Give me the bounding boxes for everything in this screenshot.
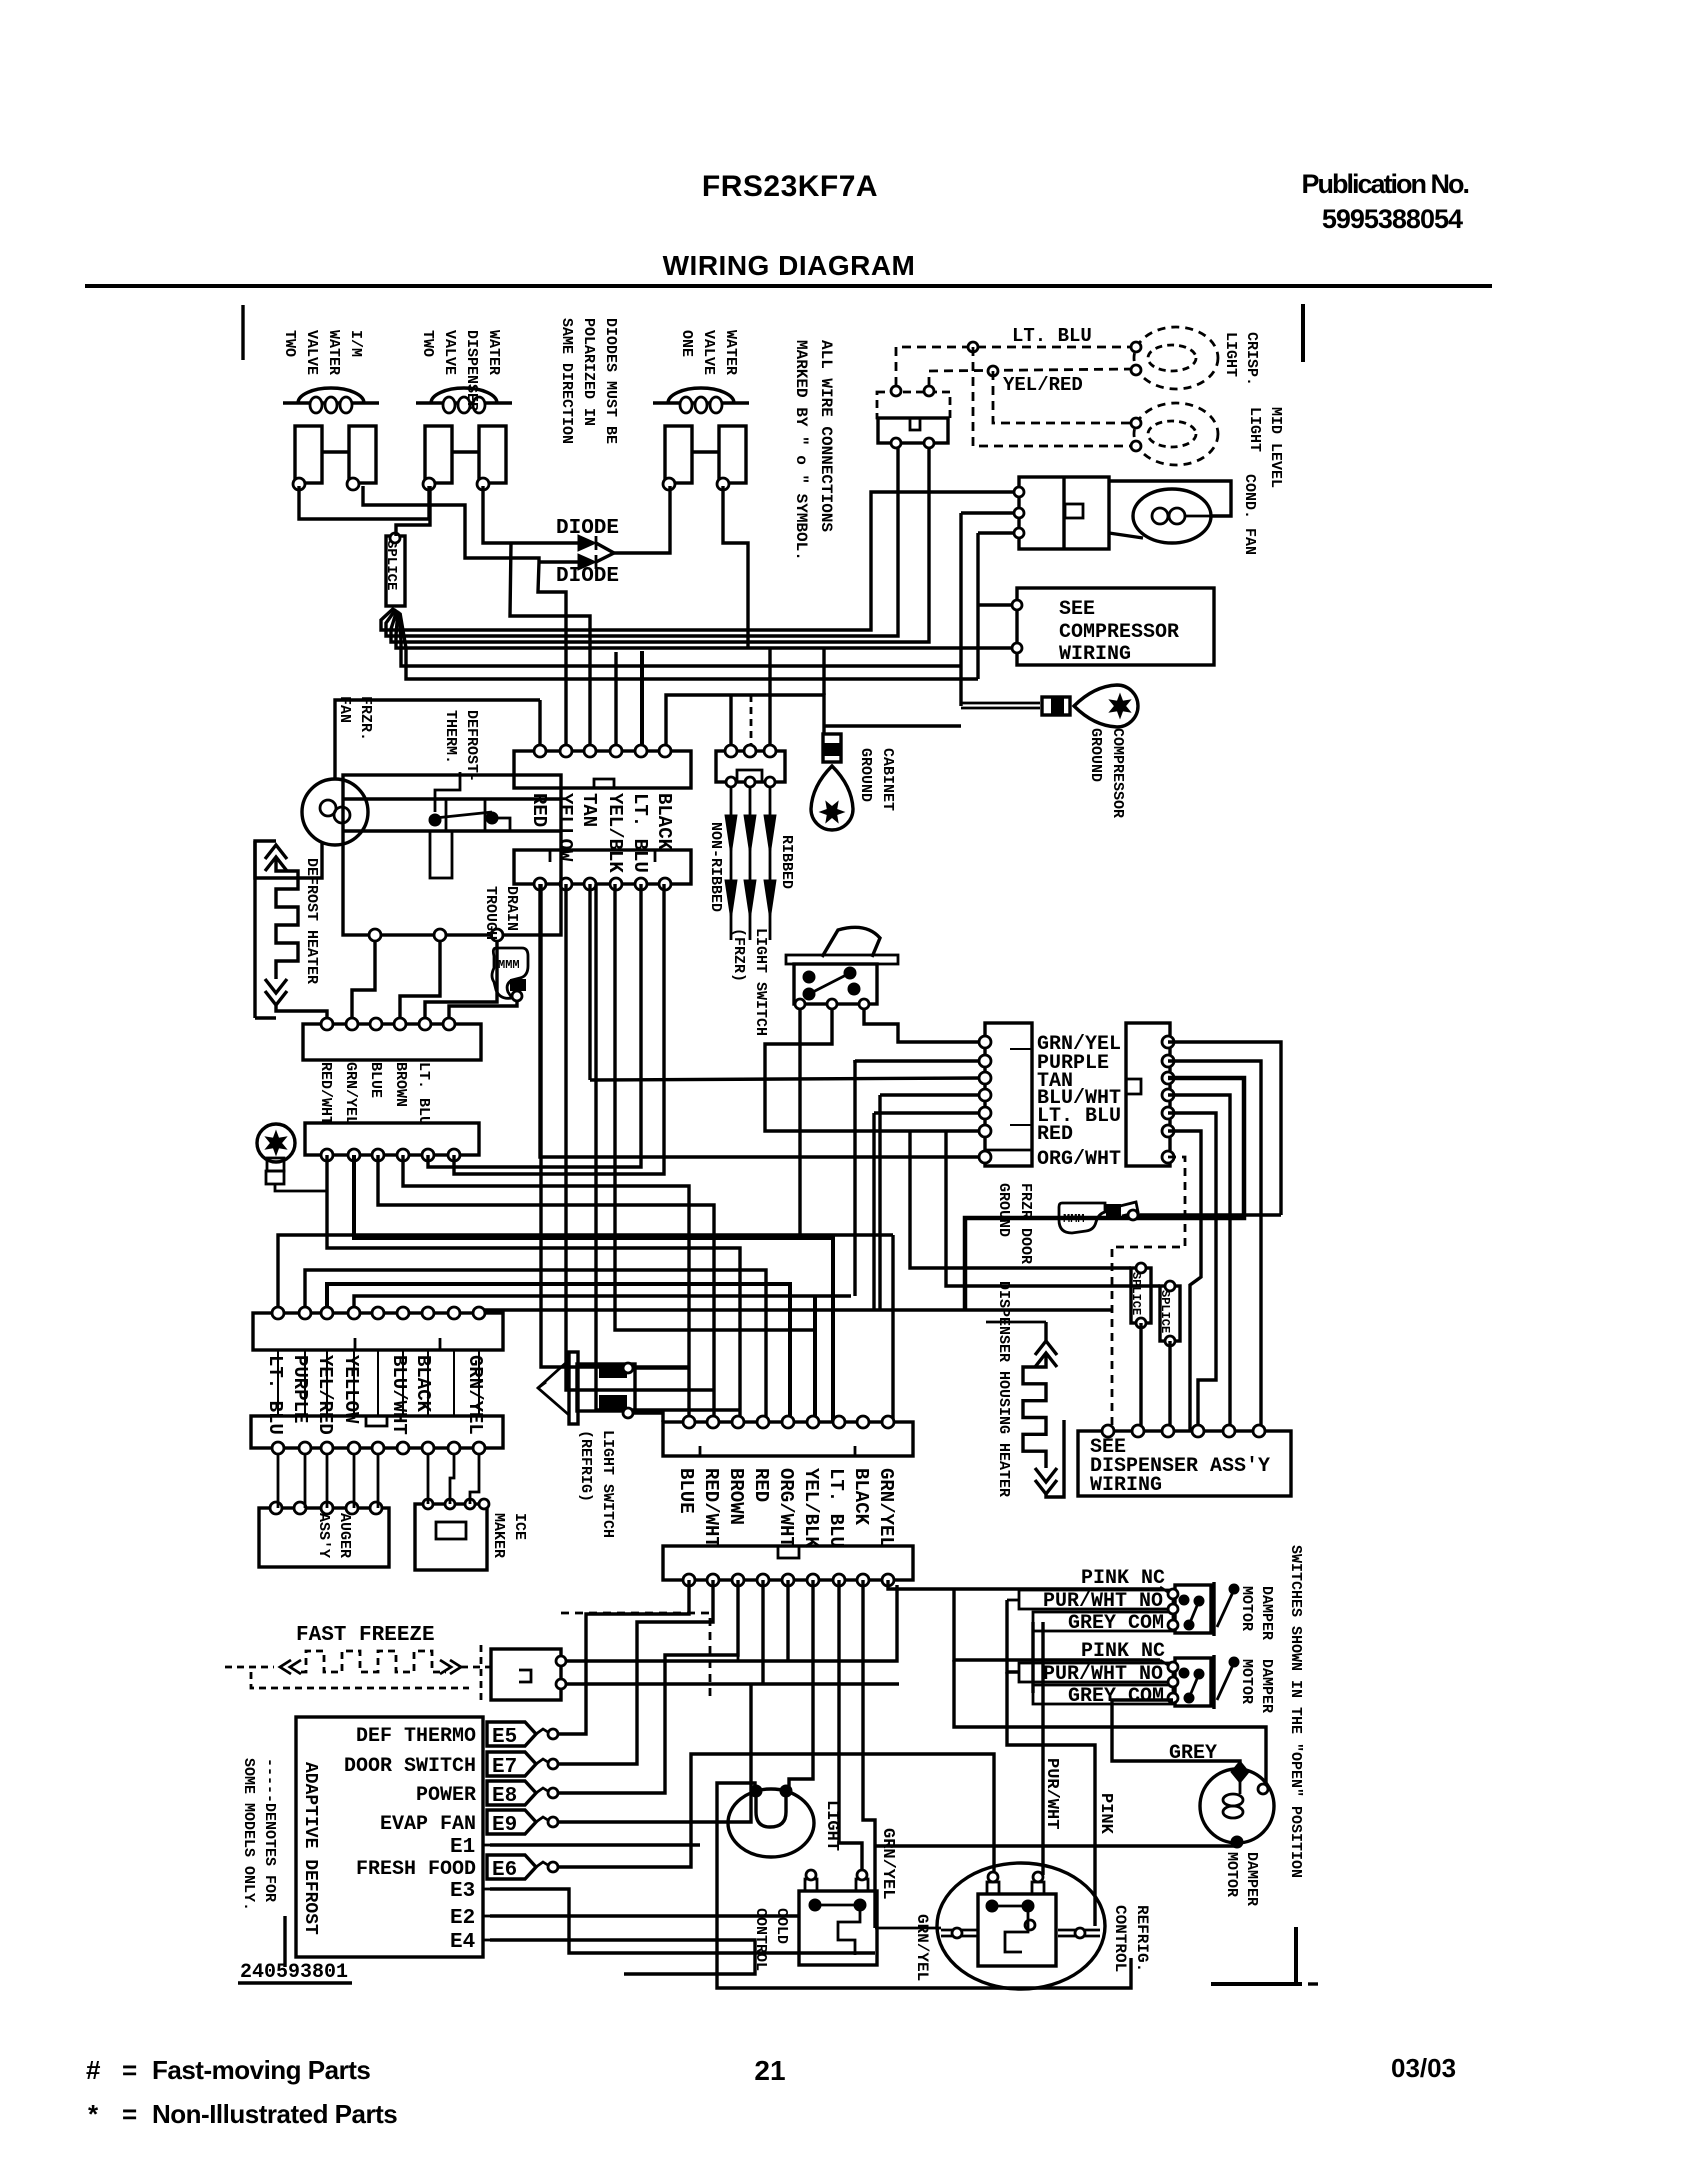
svg-text:WATER: WATER	[325, 330, 342, 375]
svg-text:VALVE: VALVE	[303, 330, 320, 375]
svg-text:CRISP.: CRISP.	[1243, 332, 1260, 386]
border corner bottom right	[1294, 1927, 1298, 1984]
wire damper row feeds	[1007, 1599, 1019, 1602]
diode D2	[539, 560, 578, 563]
connector JA	[305, 1123, 479, 1155]
wire grey com1 feed	[1031, 1622, 1034, 1693]
connector J0	[303, 1024, 481, 1060]
svg-text:E8: E8	[492, 1785, 517, 1808]
svg-text:AUGER: AUGER	[336, 1513, 353, 1558]
svg-text:COLD: COLD	[773, 1908, 790, 1944]
svg-text:DAMPER: DAMPER	[1258, 1586, 1275, 1640]
wire JB-1 to JD-9	[278, 1235, 893, 1313]
svg-text:FRZR DOOR: FRZR DOOR	[1017, 1183, 1034, 1264]
svg-text:ONE: ONE	[678, 330, 695, 357]
compressor ground lug	[1074, 685, 1138, 727]
svg-text:SOME MODELS ONLY.: SOME MODELS ONLY.	[240, 1758, 257, 1911]
wire bus B3 splice to thermostat right	[391, 443, 929, 642]
svg-text:BLACK: BLACK	[850, 1468, 872, 1526]
svg-text:LT. BLU: LT. BLU	[629, 793, 651, 873]
ground screw	[257, 1124, 295, 1162]
wire YEL/RED dashed	[929, 369, 1133, 386]
border tick left top	[241, 305, 244, 360]
svg-text:BLACK: BLACK	[653, 793, 675, 851]
wire valve2-right to diode 1	[483, 486, 511, 543]
wires JC to ice maker	[427, 1454, 430, 1504]
solenoid valve WATER VALVE ONE	[653, 401, 749, 404]
svg-text:MAKER: MAKER	[490, 1513, 507, 1558]
svg-text:FAST FREEZE: FAST FREEZE	[296, 1624, 435, 1647]
border tick right top	[1301, 304, 1305, 362]
damper switch body	[1175, 1658, 1211, 1706]
connector JB	[253, 1313, 503, 1350]
wire JE-6 to light bulb	[789, 1580, 813, 1789]
board terminal E8	[487, 1781, 536, 1805]
svg-text:GROUND: GROUND	[1087, 728, 1104, 782]
wire heater top lead	[986, 1321, 1046, 1324]
wire E3	[490, 1889, 875, 1953]
svg-text:LT. BLU: LT. BLU	[825, 1468, 847, 1548]
wire JE-4 to fast freeze lower	[761, 1580, 764, 1684]
svg-text:Non-Illustrated Parts: Non-Illustrated Parts	[152, 2099, 397, 2129]
svg-text:VALVE: VALVE	[700, 330, 717, 375]
wire bus B4 splice to compressor box upper	[396, 611, 1017, 648]
dispenser housing heater element	[1044, 1322, 1047, 1341]
connector JC	[251, 1416, 503, 1448]
svg-text:240593801: 240593801	[240, 1961, 348, 1984]
svg-text:E6: E6	[492, 1859, 517, 1882]
mid level light bulb	[1134, 403, 1218, 465]
freezer light switch rocker	[822, 927, 880, 957]
wire cabinet ground to compressor ground	[824, 724, 961, 727]
svg-text:E7: E7	[492, 1756, 517, 1779]
svg-text:WIRING: WIRING	[1090, 1474, 1162, 1497]
svg-text:YELLOW: YELLOW	[340, 1355, 362, 1424]
connector JD	[663, 1422, 913, 1456]
wire J1b-3 to JD-3 column	[596, 884, 740, 1410]
solenoid valve WATER DISPENSER VALVE TWO	[416, 401, 512, 404]
svg-text:NON-RIBBED: NON-RIBBED	[707, 822, 724, 912]
wire to left box T7	[540, 884, 985, 1157]
wire ground screw to JA	[275, 1184, 327, 1191]
wire E2 to cold control	[490, 1914, 799, 1917]
wire JE-5 stub	[786, 1580, 789, 1661]
svg-text:DAMPER: DAMPER	[1243, 1852, 1260, 1906]
svg-text:*: *	[88, 2099, 99, 2129]
svg-text:FRESH FOOD: FRESH FOOD	[356, 1858, 476, 1881]
svg-text:DRAIN: DRAIN	[503, 886, 520, 931]
wire JA-3 to JD-2	[378, 1155, 714, 1422]
wire diode output to valve3	[614, 486, 670, 553]
svg-text:03/03: 03/03	[1391, 2053, 1456, 2083]
svg-text:GREY COM: GREY COM	[1068, 1685, 1164, 1708]
wire E8 to JE-3	[558, 1580, 738, 1793]
svg-text:REFRIG.: REFRIG.	[1133, 1905, 1151, 1972]
wire switch frzr right	[864, 1009, 985, 1042]
svg-text:DEF THERMO: DEF THERMO	[356, 1725, 476, 1748]
svg-text:GREY COM: GREY COM	[1068, 1612, 1164, 1635]
wire damper motor bottom	[875, 1842, 1237, 1846]
wire pink nc lead	[1160, 1660, 1171, 1667]
wire LT. BLU dashed	[896, 347, 1133, 386]
cabinet ground lug (pointing down)	[811, 734, 853, 830]
svg-text:GREY: GREY	[1169, 1742, 1217, 1765]
svg-text:=: =	[122, 2099, 137, 2129]
wire cond fan bottom	[1109, 533, 1143, 538]
fast freeze switch box	[491, 1649, 561, 1700]
wire fast freeze upper	[566, 1585, 897, 1661]
svg-text:E1: E1	[450, 1836, 475, 1859]
svg-text:E5: E5	[492, 1726, 517, 1749]
svg-text:THERM.: THERM.	[442, 710, 459, 764]
wire frzr door ground to right box T1	[1138, 1213, 1281, 1216]
svg-text:GROUND: GROUND	[857, 748, 874, 802]
refrigerator light switch	[569, 1352, 578, 1424]
wire E7 to JE-2	[558, 1580, 713, 1764]
defrost thermostat switch	[435, 772, 460, 812]
svg-text:5995388054: 5995388054	[1322, 204, 1463, 234]
adaptive defrost control board	[296, 1717, 483, 1957]
solenoid valve I/M WATER VALVE TWO	[283, 401, 379, 404]
wire JE-8 grn/yel to refrig control	[863, 1580, 875, 1928]
damper motor actuator arm	[1217, 1592, 1233, 1627]
svg-text:EVAP FAN: EVAP FAN	[380, 1813, 476, 1836]
connector J1 lower half	[514, 850, 691, 884]
svg-text:YEL/BLK: YEL/BLK	[604, 793, 626, 873]
wire diode2 tap to connector Y terminal	[538, 562, 566, 748]
svg-text:E2: E2	[450, 1907, 475, 1930]
wire bus B1 splice to cond fan	[381, 492, 1019, 630]
wire E5 to JE-1	[558, 1580, 689, 1734]
wire bus tap to connector LT BLU terminal	[640, 651, 644, 748]
wire pur/wht long	[1041, 1622, 1044, 1875]
svg-text:RED/WHT: RED/WHT	[700, 1468, 722, 1548]
svg-text:MARKED BY " o " SYMBOL.: MARKED BY " o " SYMBOL.	[792, 340, 810, 561]
svg-text:LT. BLU: LT. BLU	[415, 1062, 432, 1125]
svg-text:POLARIZED IN: POLARIZED IN	[580, 318, 597, 426]
svg-text:GRN/YEL: GRN/YEL	[875, 1468, 897, 1548]
board terminal E6	[487, 1855, 536, 1879]
connector J1 freezer harness	[514, 751, 691, 788]
damper switch ladder GREY COM	[1033, 1612, 1173, 1631]
svg-text:SPLICE: SPLICE	[1129, 1272, 1143, 1315]
damper switch ladder GREY COM	[1033, 1685, 1173, 1704]
svg-text:YEL/BLK: YEL/BLK	[800, 1468, 822, 1548]
wire J1b-4 run	[615, 884, 815, 1330]
wire valve3-right down	[723, 486, 748, 648]
svg-text:ICE: ICE	[511, 1513, 528, 1540]
auger assembly box	[259, 1508, 389, 1567]
svg-text:E3: E3	[450, 1880, 475, 1903]
svg-text:ALL WIRE CONNECTIONS: ALL WIRE CONNECTIONS	[817, 340, 835, 532]
wire pink down to refrig lead	[1007, 1672, 1095, 1926]
reference box SEE COMPRESSOR WIRING	[1017, 588, 1214, 665]
svg-text:DOOR SWITCH: DOOR SWITCH	[344, 1755, 476, 1778]
svg-text:RIBBED: RIBBED	[778, 835, 795, 889]
svg-text:E4: E4	[450, 1931, 475, 1954]
svg-text:WIRING DIAGRAM: WIRING DIAGRAM	[663, 250, 916, 281]
wire E6 fresh food	[558, 1754, 994, 1877]
svg-text:SWITCHES SHOWN IN THE "OPEN" P: SWITCHES SHOWN IN THE "OPEN" POSITION	[1287, 1545, 1304, 1878]
wires defrost timer to connector J0	[352, 941, 375, 1022]
damper motor actuator arm	[1217, 1665, 1233, 1700]
svg-text:VALVE: VALVE	[441, 330, 458, 375]
wire compressor ground lead	[961, 702, 1040, 705]
reference box SEE DISPENSER ASSY WIRING	[1078, 1431, 1291, 1496]
svg-text:LIGHT SWITCH: LIGHT SWITCH	[599, 1430, 616, 1538]
svg-text:MMM: MMM	[498, 958, 520, 972]
svg-text:PUR/WHT NO: PUR/WHT NO	[1043, 1663, 1163, 1686]
wire dashed option link	[561, 1613, 710, 1700]
wire long from J1b-3 to left box T3	[590, 1078, 985, 1080]
thermostat crisper control	[877, 392, 950, 418]
wire to left box T4	[880, 1093, 985, 1096]
freezer door ground clip	[1059, 1203, 1105, 1233]
wire bus B5 splice to cond fan mid	[399, 612, 961, 666]
svg-text:TAN: TAN	[578, 793, 600, 827]
svg-text:#: #	[86, 2055, 101, 2085]
wire E4	[490, 1940, 755, 1974]
wire valve2-left to splice S1	[396, 486, 430, 536]
svg-text:BLUE: BLUE	[367, 1062, 384, 1098]
svg-text:BLU/WHT: BLU/WHT	[388, 1355, 410, 1435]
power cord conductor arrows	[730, 787, 733, 940]
wire dashed branch to mid level light upper	[993, 371, 1133, 423]
board terminal E5	[487, 1722, 536, 1746]
wire cond fan top loop	[1109, 481, 1231, 516]
wire splice S2 to dispenser box	[1139, 1323, 1142, 1431]
svg-text:ORG/WHT: ORG/WHT	[775, 1468, 797, 1548]
svg-text:TROUGH: TROUGH	[482, 886, 499, 940]
svg-text:RED/WHT: RED/WHT	[317, 1062, 334, 1125]
wire JB-4 to JD-6	[354, 1296, 851, 1313]
splice S1	[386, 536, 405, 606]
wires JB verticals down to JC	[277, 1350, 279, 1416]
wire long run to splice row	[486, 1310, 1112, 1313]
wire valve1-left to valve2-left	[299, 486, 429, 519]
connector J2 power cord	[716, 751, 785, 782]
svg-text:Publication No.: Publication No.	[1301, 169, 1468, 199]
wire damper pink nc 2 feed	[954, 1589, 1160, 1660]
connector box left (door harness)	[985, 1023, 1032, 1166]
svg-text:SEE: SEE	[1059, 598, 1095, 621]
ice maker box	[415, 1504, 487, 1570]
condenser fan connector	[1019, 477, 1109, 549]
wire drain trough to connector J0	[449, 1001, 517, 1022]
wire JA-6 to J1-6	[454, 884, 664, 1174]
svg-text:-----DENOTES FOR: -----DENOTES FOR	[261, 1758, 278, 1902]
wire JA-1 to JD-3	[327, 1155, 740, 1422]
svg-text:ASS'Y: ASS'Y	[315, 1513, 332, 1558]
wire to left box T5	[874, 1111, 985, 1114]
wire splice S3 to dispenser box	[1168, 1341, 1171, 1431]
wire J1b-1 to JD-1 column	[541, 884, 689, 1367]
svg-text:POWER: POWER	[416, 1784, 476, 1807]
svg-text:CONTROL: CONTROL	[752, 1908, 769, 1971]
board terminal E9	[487, 1810, 536, 1834]
wire bus tap RED terminal	[538, 700, 541, 748]
wire light bulb left to refrig control bottom	[717, 1783, 1131, 1988]
wire bus B6 splice to compressor box lower	[400, 613, 978, 679]
svg-text:PINK: PINK	[1096, 1793, 1115, 1835]
wire JE-7 to cold control right	[839, 1580, 862, 1871]
svg-text:LIGHT: LIGHT	[1246, 407, 1263, 452]
condenser fan motor	[1133, 489, 1211, 543]
svg-text:MOTOR: MOTOR	[1223, 1852, 1240, 1897]
board part number mark	[283, 1916, 286, 1967]
svg-text:RED: RED	[1037, 1123, 1073, 1146]
splice S2	[1131, 1268, 1151, 1323]
svg-text:DEFROST HEATER: DEFROST HEATER	[303, 858, 320, 984]
svg-text:COMPRESSOR: COMPRESSOR	[1109, 728, 1126, 818]
freezer fan motor	[302, 779, 368, 845]
diode D1	[511, 541, 578, 544]
svg-text:BROWN: BROWN	[725, 1468, 747, 1525]
svg-text:E9: E9	[492, 1814, 517, 1837]
svg-text:DISPENSER HOUSING HEATER: DISPENSER HOUSING HEATER	[995, 1281, 1012, 1497]
svg-text:PURPLE: PURPLE	[289, 1355, 311, 1423]
svg-text:FRS23KF7A: FRS23KF7A	[702, 170, 878, 203]
svg-text:FRZR.: FRZR.	[357, 696, 374, 741]
svg-text:=: =	[122, 2055, 137, 2085]
svg-text:GRN/YEL: GRN/YEL	[913, 1914, 931, 1981]
drain trough ground clip	[492, 948, 528, 998]
svg-text:LIGHT: LIGHT	[1222, 332, 1239, 377]
svg-text:YEL/RED: YEL/RED	[314, 1355, 336, 1435]
damper switch ladder PUR/WHT NO	[1019, 1590, 1173, 1609]
svg-text:DEFROST-: DEFROST-	[463, 710, 480, 782]
svg-text:GRN/YEL: GRN/YEL	[464, 1355, 486, 1435]
wire cabinet ground feed	[666, 695, 824, 757]
svg-text:WATER: WATER	[485, 330, 502, 375]
svg-text:GRN/YEL: GRN/YEL	[878, 1828, 897, 1899]
wire switch frzr left down	[798, 1009, 801, 1238]
svg-text:LIGHT SWITCH: LIGHT SWITCH	[752, 928, 769, 1036]
wire grn/yel into refrig control	[875, 1927, 941, 1930]
svg-text:TWO: TWO	[419, 330, 436, 357]
svg-text:BLACK: BLACK	[412, 1355, 434, 1413]
wire freezer fan to RED terminal	[335, 700, 540, 779]
wire dashed branch to mid level light lower	[973, 347, 1133, 446]
damper switch ladder PUR/WHT NO	[1019, 1663, 1173, 1682]
wire freezer fan to defrost heater	[255, 841, 322, 878]
refrig control side leads	[941, 1929, 977, 1932]
splice S3	[1160, 1286, 1180, 1341]
wire switch frzr mid	[765, 1009, 985, 1131]
wires light switch refrig	[633, 1366, 689, 1369]
wire pink nc lead	[1160, 1587, 1171, 1594]
wire right risers to splices	[910, 1131, 1131, 1268]
wire valve1-right to diode 2	[363, 486, 539, 562]
svg-text:SPLICE: SPLICE	[1158, 1290, 1172, 1333]
svg-text:LIGHT: LIGHT	[822, 1800, 841, 1851]
svg-text:DIODES MUST BE: DIODES MUST BE	[602, 318, 619, 444]
refrigerator light bulb	[728, 1789, 814, 1857]
board terminal E7	[487, 1752, 536, 1776]
svg-text:LT. BLU: LT. BLU	[1012, 325, 1092, 347]
svg-text:YEL/RED: YEL/RED	[1003, 374, 1083, 396]
wire bus tap YEL/BLK terminal	[614, 652, 617, 748]
wire fast freeze lower	[566, 1682, 899, 1685]
crisper light bulb	[1134, 327, 1218, 389]
svg-text:WIRING: WIRING	[1059, 643, 1131, 666]
wire dashed ORG/WHT	[1112, 1157, 1185, 1431]
svg-text:I/M: I/M	[347, 330, 364, 357]
svg-text:BROWN: BROWN	[392, 1062, 409, 1107]
svg-text:LT. BLU: LT. BLU	[264, 1355, 286, 1435]
wire E9 to fast freeze lower	[558, 1684, 751, 1822]
wire grey to damper motor	[1112, 1700, 1240, 1770]
wire JA-2 to JD-7	[354, 1155, 833, 1422]
connector JE	[663, 1546, 913, 1580]
svg-text:SAME DIRECTION: SAME DIRECTION	[558, 318, 575, 444]
wires from right box to dispenser circuits	[1168, 1042, 1281, 1215]
svg-text:21: 21	[754, 2055, 785, 2086]
fast freeze heater dashed	[225, 1666, 274, 1669]
damper motor	[1200, 1769, 1274, 1843]
svg-text:MOTOR: MOTOR	[1238, 1586, 1255, 1631]
connector box right (door harness)	[1126, 1023, 1170, 1166]
svg-text:WATER: WATER	[722, 330, 739, 375]
svg-text:MID LEVEL: MID LEVEL	[1267, 407, 1284, 488]
svg-text:ORG/WHT: ORG/WHT	[1037, 1148, 1121, 1171]
svg-text:MMM: MMM	[1063, 1212, 1085, 1226]
wire damper motor com run	[954, 1660, 1266, 1786]
svg-text:BLUE: BLUE	[675, 1468, 697, 1514]
svg-text:(FRZR): (FRZR)	[730, 928, 747, 982]
svg-text:SPLICE: SPLICE	[383, 540, 399, 590]
wire JA-5 to J1-5	[428, 884, 641, 1167]
svg-text:MOTOR: MOTOR	[1238, 1659, 1255, 1704]
svg-text:DIODE: DIODE	[556, 517, 619, 540]
wire J1b-2 to JD-2 column	[566, 884, 714, 1390]
wire JA-4 to JD-1	[403, 1155, 689, 1422]
wire diode1 tap to connector T terminal	[510, 543, 590, 748]
svg-text:GRN/YEL: GRN/YEL	[342, 1062, 359, 1125]
wire bus B2 splice to thermostat left	[386, 443, 898, 636]
wire E1	[490, 1843, 700, 1846]
svg-text:PUR/WHT NO: PUR/WHT NO	[1043, 1590, 1163, 1613]
svg-text:CONTROL: CONTROL	[1111, 1905, 1129, 1972]
svg-text:TWO: TWO	[281, 330, 298, 357]
wire bus tap to connector 2 ribbed terminal	[768, 648, 771, 748]
damper switch body	[1175, 1585, 1211, 1633]
svg-text:(REFRIG): (REFRIG)	[577, 1430, 594, 1502]
svg-text:COMPRESSOR: COMPRESSOR	[1059, 621, 1179, 644]
refrigerator control thermostat	[937, 1863, 1105, 1989]
wire JE-9 to damper PINK NC 1	[888, 1580, 1160, 1589]
svg-text:ADAPTIVE DEFROST: ADAPTIVE DEFROST	[300, 1762, 320, 1935]
svg-text:PINK NC: PINK NC	[1081, 1567, 1165, 1590]
svg-text:CABINET: CABINET	[879, 748, 896, 811]
wire to compressor box upper terminal	[976, 603, 979, 606]
svg-text:PUR/WHT: PUR/WHT	[1042, 1758, 1061, 1829]
defrost heater element	[253, 841, 256, 1018]
svg-text:COND. FAN: COND. FAN	[1241, 474, 1258, 555]
svg-text:GROUND: GROUND	[995, 1183, 1012, 1237]
svg-text:DAMPER: DAMPER	[1258, 1659, 1275, 1713]
wire JB-3 to JD-5	[327, 1284, 790, 1422]
svg-text:RED: RED	[750, 1468, 772, 1502]
wire to left box T2	[855, 1060, 985, 1061]
title rule line	[85, 284, 1492, 288]
svg-text:DISPENSER: DISPENSER	[463, 330, 480, 411]
wire JB-2 to JD-4	[305, 1270, 766, 1422]
defrost timer assembly	[343, 775, 561, 935]
cold control thermostat	[799, 1891, 877, 1965]
svg-text:Fast-moving Parts: Fast-moving Parts	[152, 2055, 370, 2085]
wires JC to auger	[277, 1454, 280, 1508]
